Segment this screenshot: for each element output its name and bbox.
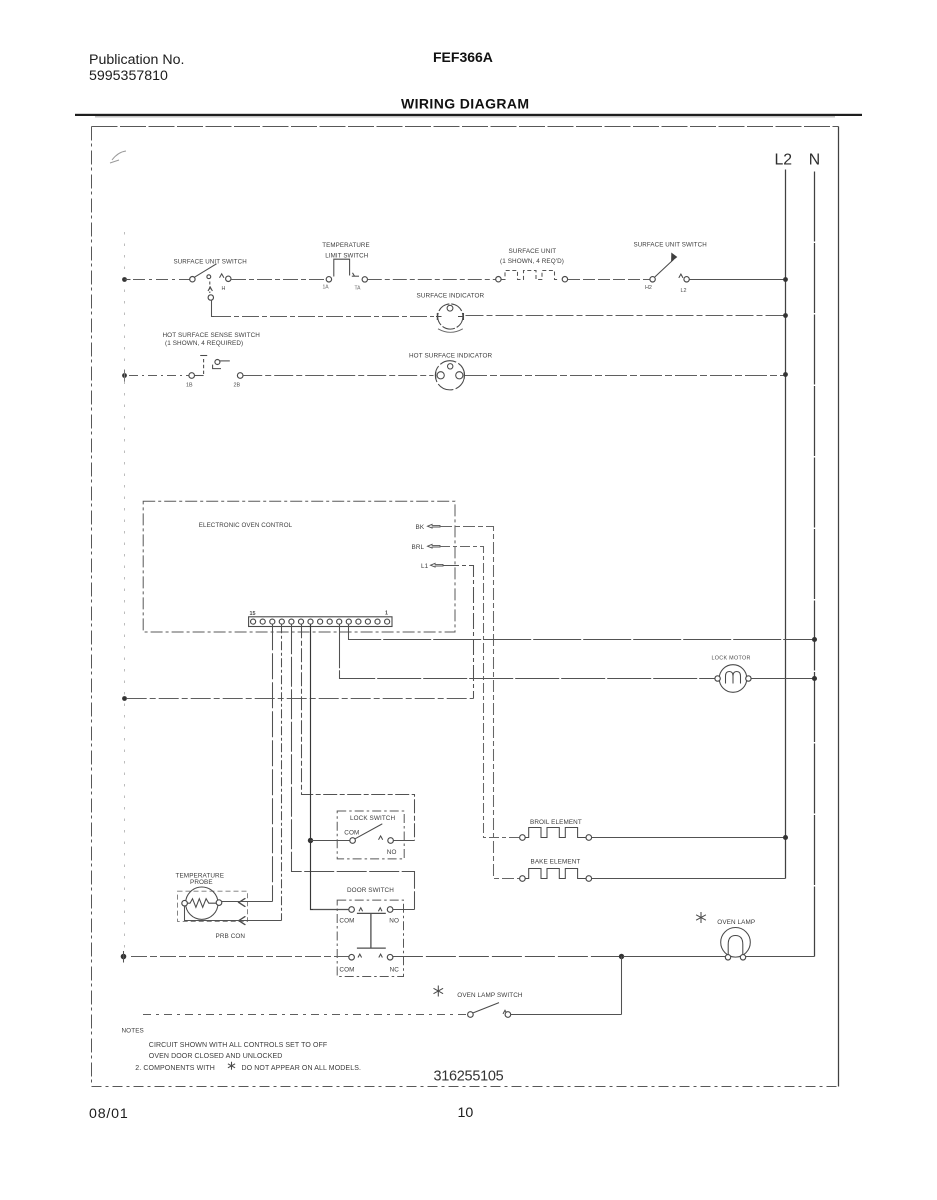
svg-text:2. COMPONENTS WITH: 2. COMPONENTS WITH bbox=[135, 1065, 215, 1072]
electronic oven control box U1 bbox=[143, 501, 455, 632]
svg-text:H2: H2 bbox=[645, 285, 652, 291]
wire pin11 to door switch NO bbox=[292, 624, 415, 909]
wire lock NO to pin10 riser bbox=[393, 840, 414, 842]
svg-text:H: H bbox=[222, 286, 226, 292]
svg-text:1A: 1A bbox=[323, 285, 330, 291]
wire row1 segment b bbox=[231, 279, 326, 281]
svg-text:LOCK SWITCH: LOCK SWITCH bbox=[350, 815, 395, 822]
svg-text:L2: L2 bbox=[681, 288, 687, 294]
junction row3-L2 bbox=[783, 372, 788, 377]
footer bbox=[89, 1028, 504, 1123]
svg-text:PRB CON: PRB CON bbox=[216, 933, 246, 940]
pencil check mark bbox=[110, 151, 126, 163]
svg-text:TEMPERATURE: TEMPERATURE bbox=[322, 242, 369, 249]
title underline bbox=[75, 114, 862, 116]
svg-text:316255105: 316255105 bbox=[434, 1069, 504, 1085]
door switch upper NO terminal bbox=[387, 907, 393, 913]
bake element bbox=[520, 869, 592, 882]
header block bbox=[75, 49, 862, 163]
wire L1 to row4 bbox=[443, 566, 474, 699]
wire row3 b bbox=[243, 375, 433, 377]
hot surface sense switch bbox=[189, 356, 243, 379]
border bottom bbox=[92, 1086, 839, 1088]
diagram border bbox=[92, 127, 839, 1087]
probe connector dashed box bbox=[178, 891, 248, 921]
wire probe hot to pin13 bbox=[222, 901, 273, 903]
svg-text:1B: 1B bbox=[186, 383, 193, 389]
svg-text:DOOR SWITCH: DOOR SWITCH bbox=[347, 887, 394, 894]
door switch lower NC terminal bbox=[387, 954, 393, 960]
border left bbox=[91, 127, 93, 1087]
wire oven lamp switch feed bbox=[143, 1014, 468, 1016]
door switch upper COM terminal bbox=[349, 907, 355, 913]
svg-text:SURFACE UNIT SWITCH: SURFACE UNIT SWITCH bbox=[634, 242, 707, 249]
surface unit element dashed bbox=[496, 271, 568, 282]
node marker row5 left bbox=[121, 954, 127, 960]
svg-text:BAKE ELEMENT: BAKE ELEMENT bbox=[531, 858, 581, 865]
svg-text:15: 15 bbox=[250, 611, 256, 617]
wire row5 c lamp to N rail bbox=[623, 956, 815, 958]
wire row5 b bbox=[393, 956, 622, 958]
wire row3 a bbox=[129, 375, 189, 377]
eoc bbox=[122, 501, 817, 920]
wire pin13 to probe hot bbox=[272, 624, 274, 901]
door switch actuator bbox=[357, 913, 386, 948]
svg-text:(1 SHOWN, 4 REQUIRED): (1 SHOWN, 4 REQUIRED) bbox=[165, 340, 243, 347]
wire row1 segment a bbox=[133, 279, 190, 281]
svg-text:(1 SHOWN, 4 REQ'D): (1 SHOWN, 4 REQ'D) bbox=[500, 258, 564, 265]
temperature probe RT1 bbox=[182, 887, 222, 919]
junction pin9-lock COM bbox=[308, 838, 313, 843]
svg-text:Publication No.: Publication No. bbox=[89, 52, 184, 68]
svg-text:SURFACE UNIT: SURFACE UNIT bbox=[509, 248, 557, 255]
svg-text:FEF366A: FEF366A bbox=[433, 49, 493, 65]
wire row1 segment d bbox=[568, 279, 650, 281]
rail L2 vertical bbox=[785, 170, 787, 879]
svg-text:COM: COM bbox=[339, 917, 354, 924]
oven lamp switch SW4 bbox=[468, 1003, 511, 1018]
svg-text:NC: NC bbox=[390, 966, 400, 973]
svg-text:LOCK MOTOR: LOCK MOTOR bbox=[712, 656, 751, 662]
svg-text:TA: TA bbox=[355, 286, 362, 292]
probe connector chevrons return bbox=[239, 916, 246, 924]
wire pin9 to lock and door COM bbox=[311, 624, 349, 909]
svg-text:OVEN DOOR CLOSED AND UNLOCKED: OVEN DOOR CLOSED AND UNLOCKED bbox=[149, 1053, 283, 1060]
svg-text:BRL: BRL bbox=[412, 544, 425, 551]
svg-text:1: 1 bbox=[385, 611, 388, 617]
connector strip J1 bbox=[249, 617, 392, 627]
wire probe return bbox=[185, 906, 282, 921]
junction lamp feed bbox=[619, 954, 624, 959]
svg-text:NOTES: NOTES bbox=[122, 1028, 144, 1035]
door switch box bbox=[337, 900, 403, 976]
svg-text:SURFACE UNIT SWITCH: SURFACE UNIT SWITCH bbox=[174, 259, 247, 266]
oven lamp DS1 bbox=[721, 928, 751, 961]
door switch upper contacts bbox=[359, 908, 382, 911]
svg-text:HOT SURFACE SENSE SWITCH: HOT SURFACE SENSE SWITCH bbox=[163, 332, 261, 339]
svg-text:WIRING DIAGRAM: WIRING DIAGRAM bbox=[401, 96, 529, 112]
surface indicator lamp bbox=[436, 304, 464, 332]
row3 bbox=[122, 332, 788, 390]
row1 bbox=[122, 242, 788, 317]
note asterisk bbox=[228, 1062, 235, 1070]
connector pins bbox=[251, 619, 390, 624]
wire oven lamp switch to junction bbox=[511, 1014, 622, 1016]
wire pin10 to lock switch NO bbox=[302, 624, 415, 840]
wire bake to L2 rail end bbox=[592, 878, 786, 880]
wire broil to L2 rail bbox=[592, 837, 786, 839]
wire lock motor to N rail bbox=[751, 678, 814, 680]
row2 bbox=[214, 293, 788, 333]
junction broil-L2 bbox=[783, 835, 788, 840]
border right bbox=[838, 127, 840, 1087]
svg-text:5995357810: 5995357810 bbox=[89, 68, 168, 84]
node marker row1 left bbox=[122, 277, 127, 282]
junction row2-L2 bbox=[783, 313, 788, 318]
svg-text:NO: NO bbox=[387, 849, 397, 856]
svg-text:CIRCUIT SHOWN WITH ALL CONTROL: CIRCUIT SHOWN WITH ALL CONTROLS SET TO O… bbox=[149, 1042, 327, 1049]
wire row3 c to L2 rail bbox=[465, 375, 786, 377]
wire SW1 pilot to row2 bbox=[212, 300, 215, 316]
lower bbox=[121, 811, 815, 1017]
wire BRL to broil element bbox=[440, 547, 520, 838]
oven lamp asterisk bbox=[696, 912, 706, 923]
door switch lower COM terminal bbox=[349, 954, 355, 960]
wire pin6 to N rail bbox=[349, 624, 815, 639]
svg-text:N: N bbox=[809, 152, 820, 169]
junction N rail row bbox=[812, 637, 817, 642]
wire door COM stub bbox=[313, 909, 349, 911]
wire BK to bake element bbox=[440, 527, 520, 879]
junction row1-L2 bbox=[783, 277, 788, 282]
svg-text:HOT SURFACE INDICATOR: HOT SURFACE INDICATOR bbox=[409, 353, 492, 360]
wire row4 bbox=[127, 698, 474, 700]
surface unit switch SW2 bbox=[650, 253, 689, 282]
temperature limit switch bbox=[326, 259, 367, 282]
junction lock motor-N bbox=[812, 676, 817, 681]
terminal BK spade bbox=[428, 524, 441, 528]
svg-text:BROIL ELEMENT: BROIL ELEMENT bbox=[530, 819, 582, 826]
svg-text:ELECTRONIC OVEN CONTROL: ELECTRONIC OVEN CONTROL bbox=[199, 522, 293, 529]
wire door NO to riser bbox=[393, 909, 415, 911]
wire lamp feed drop bbox=[621, 957, 623, 1015]
node marker row4 left bbox=[122, 696, 127, 701]
wire row1 segment e to L2 rail bbox=[689, 279, 785, 281]
lock motor M1 bbox=[715, 665, 751, 693]
svg-text:PROBE: PROBE bbox=[190, 879, 213, 886]
wire pin12 to probe return bbox=[281, 624, 283, 920]
oven lamp switch asterisk bbox=[434, 986, 444, 997]
door switch lower contacts bbox=[358, 954, 382, 957]
surface unit switch SW1 bbox=[190, 264, 231, 282]
lock switch SW3 bbox=[350, 824, 394, 844]
inner left margin dashes bbox=[124, 232, 126, 960]
svg-text:08/01: 08/01 bbox=[89, 1106, 129, 1122]
node marker row3 left bbox=[122, 373, 127, 378]
hot surface indicator lamp bbox=[435, 361, 464, 390]
svg-text:OVEN LAMP: OVEN LAMP bbox=[717, 919, 755, 926]
svg-text:OVEN LAMP SWITCH: OVEN LAMP SWITCH bbox=[457, 992, 523, 999]
wire pin5 to lock motor bbox=[340, 624, 715, 678]
svg-text:2B: 2B bbox=[234, 383, 241, 389]
svg-text:SURFACE INDICATOR: SURFACE INDICATOR bbox=[417, 293, 485, 300]
svg-text:NO: NO bbox=[389, 917, 399, 924]
svg-text:L1: L1 bbox=[421, 563, 429, 570]
svg-text:DO NOT APPEAR ON ALL MODELS.: DO NOT APPEAR ON ALL MODELS. bbox=[242, 1065, 362, 1072]
wire row1 segment c bbox=[368, 279, 496, 281]
wire row2 b to L2 rail bbox=[466, 315, 786, 317]
lock switch box bbox=[337, 811, 404, 859]
probe connector chevrons hot bbox=[239, 898, 246, 906]
svg-text:10: 10 bbox=[458, 1105, 474, 1121]
svg-text:L2: L2 bbox=[775, 152, 793, 169]
wire row5 a bbox=[131, 956, 349, 958]
svg-text:COM: COM bbox=[344, 829, 359, 836]
rail N vertical bbox=[814, 172, 816, 957]
pilot contact of SW1 bbox=[209, 282, 211, 294]
rails bbox=[775, 152, 821, 957]
svg-text:BK: BK bbox=[416, 524, 425, 531]
broil element bbox=[520, 828, 592, 841]
svg-text:LIMIT SWITCH: LIMIT SWITCH bbox=[325, 253, 368, 260]
wire lock COM branch bbox=[311, 840, 350, 842]
border top bbox=[92, 126, 839, 128]
wire row2 a bbox=[214, 316, 434, 318]
terminal L1 spade bbox=[431, 563, 444, 567]
svg-text:COM: COM bbox=[339, 966, 354, 973]
terminal BRL spade bbox=[428, 544, 441, 548]
